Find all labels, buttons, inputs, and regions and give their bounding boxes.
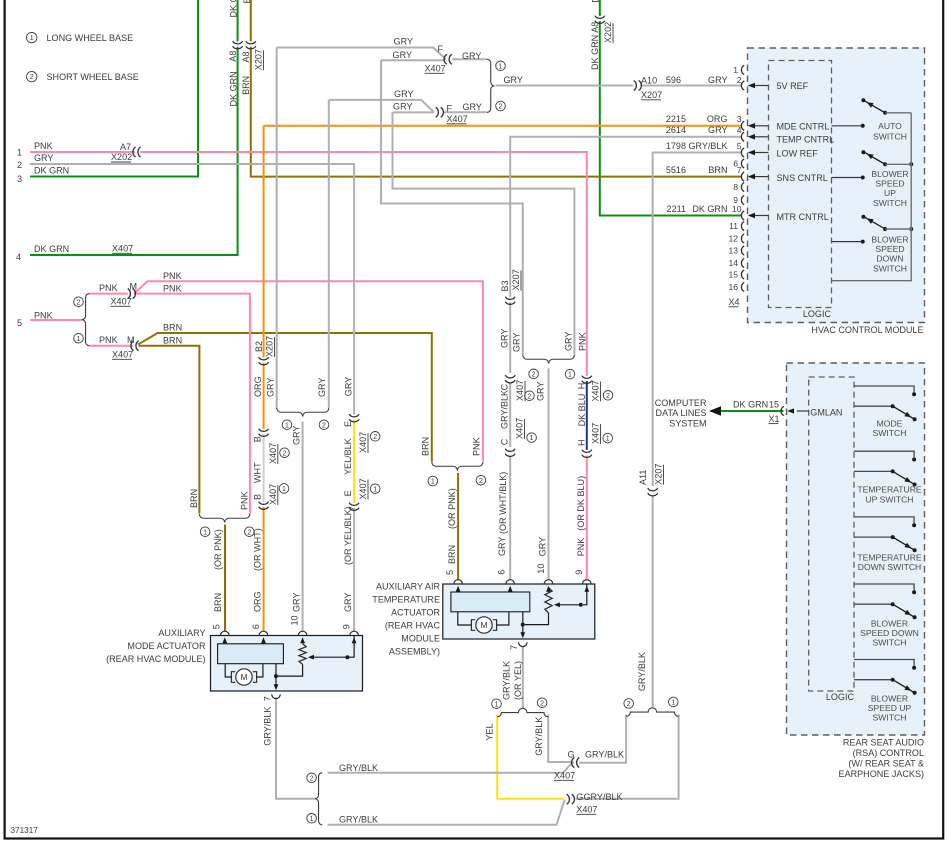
connector X407 pin G upper on GRY/BLK wires [574,761,579,764]
svg-text:1: 1 [203,529,207,536]
brace merging BRN/PNK options to mode actuator pin 5 [199,514,224,523]
svg-text:HVAC CONTROL MODULE: HVAC CONTROL MODULE [811,325,923,335]
HVAC module pin 12 [741,234,744,243]
svg-text:2: 2 [373,434,377,441]
svg-text:PNK: PNK [34,141,53,151]
svg-text:5V REF: 5V REF [777,81,809,91]
svg-text:GRY/BLK: GRY/BLK [534,717,544,756]
svg-text:DK GRN: DK GRN [733,400,768,410]
svg-text:X207: X207 [641,90,662,100]
svg-text:LOGIC: LOGIC [803,309,832,319]
svg-text:6: 6 [251,624,261,629]
svg-text:DOWN SWITCH: DOWN SWITCH [858,562,922,572]
connector X407 pin C upper on GRY/GRY-BLK wire [509,375,512,380]
wire YEL/BLK segment between connectors X407 E [353,420,355,504]
svg-text:SWITCH: SWITCH [873,198,907,208]
svg-text:X407: X407 [425,64,446,74]
pivot dot auto switch [883,111,887,115]
wire GRY straight feed into connector X407 F upper [381,59,444,61]
brace splitting temperature actuator pin 7 wire [497,708,523,717]
svg-text:1: 1 [606,436,610,443]
svg-text:F: F [447,104,453,114]
connector X407 pin H lower on DK BLU/PNK wire [585,450,588,455]
connector X407 pin M (long wheel base) on PNK/BRN wire [133,344,138,347]
svg-text:X407: X407 [268,484,278,505]
svg-text:16: 16 [728,282,738,292]
svg-text:SPEED UP: SPEED UP [868,703,912,713]
svg-text:GRY: GRY [393,50,412,60]
svg-text:(RSA) CONTROL: (RSA) CONTROL [853,748,924,758]
svg-text:SWITCH: SWITCH [873,713,907,723]
svg-text:PNK: PNK [472,437,482,456]
arrow to computer data lines system [709,406,721,416]
svg-text:2: 2 [322,422,326,429]
RSA logic inner box (dashed) [809,377,854,691]
connector X407 pin M (short wheel base) on PNK wire [128,292,133,295]
wire GRY straight feed into connector X407 F lower [393,111,435,113]
svg-text:EARPHONE JACKS): EARPHONE JACKS) [839,769,924,779]
svg-text:D: D [591,0,601,3]
HVAC logic inner box (dashed) [769,61,832,308]
svg-text:PNK: PNK [239,491,249,510]
RSA GMLAN pin 15 connector arc [781,406,784,415]
connector X407 pin F upper on GRY wires [446,58,451,61]
svg-text:SPEED: SPEED [875,179,904,189]
svg-text:13: 13 [728,246,738,256]
svg-text:BRN: BRN [163,335,182,345]
svg-text:4: 4 [737,125,742,135]
option circles at temperature pin10 brace [529,369,539,379]
wire GRY/BLK mode branch 2 to connector X407 G upper [328,764,572,773]
svg-text:10: 10 [536,564,546,574]
svg-text:X407: X407 [591,380,601,401]
svg-text:SWITCH: SWITCH [873,131,907,141]
svg-text:6: 6 [497,570,507,575]
svg-text:1: 1 [285,422,289,429]
temperature pin 7 internal lead [522,612,524,635]
svg-text:12: 12 [728,234,738,244]
HVAC input arrow LOW REF [754,152,769,154]
wire DK GRN row 4 via connector X207 A8 to top edge [30,0,238,255]
wire PNK row 5 stub to brace [30,319,82,321]
svg-text:7: 7 [509,645,519,650]
svg-text:11: 11 [729,221,738,231]
svg-text:5: 5 [737,141,742,151]
svg-text:2: 2 [17,160,22,170]
svg-text:SPEED DOWN: SPEED DOWN [860,628,919,638]
svg-text:TEMP CNTRL: TEMP CNTRL [777,135,835,145]
temperature motor lead right [497,612,509,625]
svg-text:GRY: GRY [393,102,412,112]
wire GRY out of connector F upper to brace [452,58,487,60]
svg-text:PNK: PNK [163,271,182,281]
svg-text:X202: X202 [603,22,613,43]
temperature actuator pin 5 terminal [454,580,463,584]
wire GRY (OR WHT/BLK) to temperature actuator pin 6 [509,457,511,581]
wire DK GRN row 3 up to top edge [30,0,198,177]
wire YEL from temperature actuator pin 7 split to connector X407 G [497,715,563,799]
svg-text:GRY/BLK: GRY/BLK [500,390,510,429]
HVAC module pin 14 [741,258,744,267]
wire GRY out of connector F lower to brace [444,111,487,113]
wire GRY/BLK A11 branch 1 to connector X407 G lower [576,715,679,799]
brace merging GRY options to temperature actuator pin 10 [523,355,549,364]
svg-text:10: 10 [732,204,742,214]
svg-text:DK GRN: DK GRN [34,244,69,254]
temperature actuator control sub-block [451,592,530,612]
resistor (mode actuator position feedback) [299,644,306,665]
HVAC module pin 5 [741,148,744,157]
svg-text:2: 2 [283,450,287,457]
svg-text:GRY: GRY [536,382,546,401]
connector X407 pin H upper on PNK/DK BLU wire [585,376,588,381]
contact dot MDE CNTRL (auto switch) [861,124,865,128]
HVAC switch common bus [832,113,912,281]
HVAC module pin 4 [741,132,744,141]
mode actuator pin 6 terminal [259,631,268,635]
svg-text:X207: X207 [511,269,521,290]
connector X407 pin G lower on YEL and GRY/BLK wires [567,798,572,801]
svg-text:GRY: GRY [292,426,302,445]
svg-text:SNS CNTRL: SNS CNTRL [777,173,828,183]
svg-text:BRN: BRN [447,545,457,564]
pivot dot blower speed down switch [883,227,887,231]
contact dot SNS CNTRL (blower speed up switch) [861,176,865,180]
auto switch bus stub [885,112,911,114]
svg-text:M: M [130,282,138,292]
mode actuator pin 5 terminal [221,631,230,635]
svg-text:1: 1 [499,63,503,70]
mode pin 7 internal lead [275,664,277,687]
pivot dot blower speed up switch [883,162,887,166]
svg-text:M: M [127,335,135,345]
throw dot blower speed down switch [861,215,865,219]
svg-text:F: F [438,44,444,54]
mode actuator pin 7 terminal [272,694,281,698]
wire GRY 2614 from HVAC pin 4 TEMP CNTRL down via connector X207 B3 [510,137,741,373]
svg-text:4: 4 [16,252,21,262]
svg-text:TEMPERATURE: TEMPERATURE [857,553,922,563]
svg-text:15: 15 [728,270,738,280]
option circles at GRY merge brace [496,61,506,71]
svg-text:E: E [343,490,353,496]
svg-text:(OR WHT): (OR WHT) [252,528,262,571]
svg-text:X4: X4 [729,297,740,307]
option circles at mode pin5 brace [200,527,210,537]
connector X407 pin E lower on YEL-BLK/GRY wire [353,503,356,508]
svg-text:UP: UP [884,188,896,198]
svg-text:H: H [576,439,586,446]
wire BRN branch to temperature actuator pin 5 brace [136,333,432,462]
svg-text:AUXILIARY AIR: AUXILIARY AIR [376,582,440,592]
legend item 2 SHORT WHEEL BASE [27,71,37,81]
option circles at mode pin10 brace [282,420,292,430]
HVAC module pin 2 [741,81,744,90]
svg-text:SHORT WHEEL BASE: SHORT WHEEL BASE [47,72,139,82]
svg-text:TEMPERATURE: TEMPERATURE [372,595,440,605]
svg-text:SWITCH: SWITCH [873,428,907,438]
junction on HVAC switch bus at blower speed up [909,162,913,166]
mode actuator pin 10 terminal [298,631,307,635]
svg-text:M: M [480,620,487,630]
svg-text:A10: A10 [641,76,657,86]
svg-text:LONG WHEEL BASE: LONG WHEEL BASE [47,33,134,43]
svg-text:1: 1 [77,336,81,343]
brace splitting A11 GRY/BLK wire [626,708,652,717]
svg-text:DK GRN: DK GRN [34,166,69,176]
temperature actuator pin 7 terminal [519,642,528,646]
svg-text:GRY: GRY [708,125,727,135]
svg-text:ORG: ORG [253,376,263,397]
svg-text:1: 1 [282,486,286,493]
svg-text:GRY: GRY [497,537,507,556]
auxiliary air temperature actuator box [443,584,595,639]
mode wiper arrow [312,656,347,658]
svg-text:1: 1 [530,435,534,442]
blower speed up switch contact line [832,177,863,179]
wire GRY 596 from brace to connector X207 A10 [496,85,634,87]
HVAC input arrow MDE CNTRL [754,125,769,127]
blower speed down switch bus stub [885,228,911,230]
blower speed down switch contact line [832,241,863,243]
wire GRY/BLK from mode actuator pin 7 to split brace [276,698,315,799]
mode motor lead right [257,664,263,677]
svg-text:GRY: GRY [343,593,353,612]
svg-text:PNK: PNK [99,335,118,345]
wire PNK (OR DK BLU) to temperature actuator pin 9 [586,456,588,581]
temperature pin 9 internal lead [583,584,587,605]
svg-text:UP SWITCH: UP SWITCH [865,494,913,504]
svg-text:GRY/BLK: GRY/BLK [339,763,378,773]
svg-text:SWITCH: SWITCH [873,263,907,273]
svg-text:GRY: GRY [564,332,574,351]
svg-text:DK GRN: DK GRN [229,0,239,18]
svg-text:PNK: PNK [163,283,182,293]
svg-text:GRY: GRY [708,75,727,85]
svg-text:ORG: ORG [707,114,728,124]
switch blower speed up (RSA) [854,660,914,666]
connector X407 pin E upper on GRY/YEL-BLK wire [353,414,356,419]
svg-text:C: C [500,383,510,390]
svg-text:2: 2 [527,393,531,400]
brace merging BRN/PNK options to temperature actuator pin 5 [432,462,458,471]
svg-text:GRY: GRY [394,37,413,47]
wire GRY (OR YEL/BLK) to mode actuator pin 9 [353,508,355,631]
HVAC module pin 9 [741,195,744,204]
wire GRY to connector X407 F lower (diagonal feed) [329,100,434,112]
wire PNK brace arm 1 to connector M X407 [89,345,133,347]
wire DK GRN GMLAN to computer data lines arrow [720,410,784,412]
svg-text:1: 1 [17,148,22,158]
temperature resistor lead to pin 7 node [525,613,549,625]
wire BRN (OR PNK) to mode actuator pin 5 [224,525,226,632]
option circles at mode pin7 split [307,773,317,783]
svg-text:371317: 371317 [11,826,39,835]
junction on HVAC switch bus at blower speed down [909,227,913,231]
wire GRY/BLK segment between connectors X407 C [509,383,511,447]
option 2 circle at row 5 [74,297,84,307]
svg-text:PNK: PNK [577,332,587,351]
svg-text:SWITCH: SWITCH [873,638,907,648]
connector X202 on DK GRN wire at top [598,16,601,21]
wire PNK brace arm 2 to connector M X407 [89,293,128,295]
svg-text:A8: A8 [228,51,238,62]
HVAC module pin 8 [741,182,744,191]
svg-text:1: 1 [733,65,738,75]
svg-text:9: 9 [342,624,352,629]
wire GRY to connector X407 F upper (diagonal feed) [277,48,446,60]
auto switch contact line [832,125,863,127]
wire DK BLU segment between connectors X407 H [586,381,588,453]
HVAC module pin 13 [741,246,744,255]
svg-text:1: 1 [30,35,34,42]
svg-text:BLOWER: BLOWER [871,235,908,245]
svg-text:GMLAN: GMLAN [810,407,842,417]
svg-text:COMPUTER: COMPUTER [655,398,707,408]
wire GRY column to temperature actuator pin 10 brace arm 2 [381,60,523,355]
svg-text:PNK: PNK [576,538,586,557]
svg-text:2: 2 [540,700,544,707]
svg-text:15: 15 [769,400,779,410]
legend item 1 LONG WHEEL BASE [27,32,37,42]
option circles at temperature pin7 split [492,699,502,709]
wire GRY to mode actuator pin 10 [302,422,304,632]
svg-text:DK GRN: DK GRN [692,204,727,214]
connector X202 pin A7 on PNK wire [135,151,140,154]
svg-text:GRY: GRY [538,537,548,556]
svg-text:TEMPERATURE: TEMPERATURE [857,485,922,495]
svg-text:B3: B3 [500,280,510,291]
wire BRN from connector M X407 down (long wheel base) [139,346,200,514]
svg-text:X207: X207 [654,464,664,485]
svg-text:LOW REF: LOW REF [777,148,819,158]
svg-text:7: 7 [737,165,742,175]
svg-text:(W/ REAR SEAT &: (W/ REAR SEAT & [848,759,924,769]
connector X207 pin B2 on ORG wire [262,357,265,362]
svg-text:1: 1 [495,701,499,708]
wire GRY 596 from connector A10 to HVAC pin 2 5V REF [641,85,742,87]
svg-text:GRY: GRY [266,378,276,397]
junction temperature actuator pin 7 node [521,623,525,627]
wire GRY column to mode actuator pin 10 brace arm 2 [328,100,330,408]
svg-text:BRN: BRN [708,165,727,175]
option circles at temperature pin5 brace [428,476,438,486]
brace merging GRY options to wire 596 [487,59,495,112]
svg-text:MTR CNTRL: MTR CNTRL [777,212,829,222]
svg-text:1: 1 [373,486,377,493]
HVAC control module box (dashed outline, blue fill) [748,48,925,323]
junction mode actuator wiper node [345,655,349,659]
connector X407 pin B lower on WHT/ORG wire [262,502,265,507]
HVAC input arrow MTR CNTRL [754,215,769,217]
svg-text:A8: A8 [241,51,251,62]
svg-text:DATA LINES: DATA LINES [656,408,707,418]
temperature motor lead left [458,612,471,625]
svg-text:GRY/BLK: GRY/BLK [585,749,624,759]
svg-text:BRN: BRN [163,323,182,333]
svg-text:X407: X407 [268,443,278,464]
svg-text:GRY/BLK: GRY/BLK [263,707,273,746]
svg-text:10: 10 [290,615,300,625]
temperature actuator pin 9 terminal [583,580,592,584]
svg-text:(OR PNK): (OR PNK) [447,488,457,529]
wire GRY row 2 down to connector X407 E [30,164,354,415]
wire GRY to temperature actuator pin 10 [548,369,550,581]
svg-text:X407: X407 [358,432,368,453]
svg-text:YEL/BLK: YEL/BLK [343,438,353,475]
motor M (temperature actuator) [476,617,492,633]
svg-text:2: 2 [532,371,536,378]
wire BRN (OR PNK) to temperature actuator pin 5 [457,473,459,580]
svg-text:GRY: GRY [504,75,523,85]
switch temperature down (RSA) [854,517,914,523]
svg-text:2: 2 [247,529,251,536]
svg-text:REAR SEAT AUDIO: REAR SEAT AUDIO [843,738,924,748]
svg-text:GRY/BLK: GRY/BLK [502,661,512,700]
svg-text:GRY: GRY [317,378,327,397]
svg-text:2: 2 [479,478,483,485]
svg-text:GRY/BLK: GRY/BLK [688,141,727,151]
motor M (mode actuator) [236,669,252,685]
svg-text:1798: 1798 [666,141,686,151]
svg-text:WHT: WHT [252,462,262,483]
svg-text:MODULE: MODULE [401,634,440,644]
svg-text:GRY: GRY [344,377,354,396]
wire GRY column to mode actuator pin 10 brace arm 1 [276,48,278,409]
svg-text:2215: 2215 [666,114,686,124]
svg-text:X207: X207 [265,336,275,357]
svg-text:9: 9 [574,570,584,575]
wire GRY/BLK A11 branch 2 to connector X407 G upper [572,715,626,763]
HVAC input arrow SNS CNTRL [754,176,769,178]
svg-text:GRY: GRY [463,102,482,112]
svg-text:2614: 2614 [666,125,686,135]
switch blower speed down (RSA) [854,584,914,590]
option circles at A11 split [624,699,634,709]
svg-text:MODE: MODE [877,418,903,428]
wire GRY column to temperature actuator pin 10 brace arm 1 [393,112,575,355]
wire WHT segment between connectors X407 B [263,433,265,504]
connector X207 pin A8 on BRN wire [249,41,252,46]
svg-text:MDE CNTRL: MDE CNTRL [777,121,830,131]
svg-text:2211: 2211 [667,204,686,214]
svg-text:(OR YEL): (OR YEL) [513,661,523,700]
svg-text:BRN: BRN [242,0,252,4]
svg-text:1: 1 [671,700,675,707]
connector X207 pin A10 on GRY wire [634,84,639,87]
brace splitting mode actuator pin 7 wire [315,773,323,825]
junction temperature actuator wiper node [579,603,583,607]
svg-text:2: 2 [606,393,610,400]
svg-text:14: 14 [728,258,738,268]
svg-text:AUXILIARY: AUXILIARY [158,628,205,638]
svg-text:GRY: GRY [394,89,413,99]
svg-text:GRY: GRY [500,329,510,348]
wire PNK row 1 via connector X202 A7 to connector X407 H [30,152,587,376]
svg-text:X407: X407 [112,350,133,360]
svg-text:ACTUATOR: ACTUATOR [391,608,440,618]
svg-text:BLOWER: BLOWER [871,169,908,179]
svg-text:X407: X407 [515,380,525,401]
svg-text:X407: X407 [591,423,601,444]
svg-text:ASSEMBLY): ASSEMBLY) [389,647,440,657]
connector X407 pin C lower on GRY-BLK/GRY wire [509,449,512,454]
svg-text:LOGIC: LOGIC [826,692,855,702]
mode resistor lead to pin 7 node [278,664,303,676]
wire PNK from connector M down to mode actuator pin 5 brace [134,294,250,514]
svg-text:ORG: ORG [252,591,262,612]
svg-text:GRY/BLK: GRY/BLK [584,792,623,802]
